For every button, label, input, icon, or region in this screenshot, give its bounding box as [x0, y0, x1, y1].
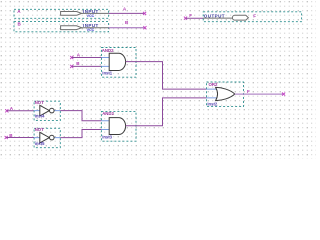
- NOT gate inst4 input x mark: [5, 109, 8, 112]
- svg-text:AND2: AND2: [102, 111, 114, 116]
- wire net F from OR2 inst2 output: [235, 93, 284, 95]
- wire net B (top): [109, 27, 145, 29]
- svg-text:F: F: [253, 14, 256, 19]
- svg-text:AND2: AND2: [102, 48, 114, 53]
- wire net A into AND2 inst1: [72, 57, 102, 59]
- NOT gate inst5 input x mark: [5, 136, 8, 139]
- svg-text:OR2: OR2: [209, 82, 218, 87]
- input pin B selection box: [14, 22, 109, 32]
- input pin A symbol body: [61, 9, 109, 18]
- dangling-end x mark (wire B into AND2 inst1): [70, 65, 73, 68]
- wire from AND2 inst1 output to OR2 inst2 input 1: [126, 62, 207, 90]
- wire net A into NOT inst4: [7, 110, 34, 112]
- wire net B into NOT inst5: [6, 137, 34, 139]
- NOT gate inst5 selection box: [34, 128, 60, 147]
- AND2 inst1 input stub pins: [102, 58, 110, 67]
- wire net F (to output pin): [186, 17, 204, 19]
- output pin F symbol body: [203, 14, 248, 21]
- svg-text:inst4: inst4: [35, 114, 45, 119]
- svg-text:VCC: VCC: [87, 14, 95, 18]
- svg-text:inst3: inst3: [102, 135, 112, 140]
- and-gate inst3 body: [109, 118, 125, 135]
- output pin F selection box: [203, 12, 301, 22]
- svg-text:F: F: [247, 89, 250, 94]
- svg-text:inst2: inst2: [207, 102, 217, 107]
- svg-text:NOT: NOT: [35, 127, 44, 132]
- wire net B into AND2 inst1: [72, 65, 102, 67]
- grid background: [0, 0, 316, 159]
- and-gate U inst1 body: [109, 53, 125, 70]
- wire net A (top): [109, 12, 145, 14]
- svg-text:inst1: inst1: [102, 71, 112, 76]
- OR2 inst2 input stub pins: [207, 89, 218, 98]
- svg-text:NOT: NOT: [35, 100, 44, 105]
- wire from AND2 inst3 output to OR2 inst2 input 2: [126, 98, 207, 126]
- AND2 gate inst3 selection box: [101, 111, 136, 141]
- input pin B symbol body: [61, 23, 109, 32]
- AND2 inst3 input stub pins: [101, 121, 109, 130]
- wire from NOT inst5 output to AND2 inst3 input 2: [60, 130, 101, 138]
- or-gate inst2 body: [216, 87, 235, 100]
- dangling-end x mark (output wire F): [184, 17, 187, 20]
- dangling-end x mark (OR2 output wire F): [282, 93, 285, 96]
- not-gate inst4 body: [40, 105, 54, 116]
- svg-text:inst5: inst5: [35, 141, 45, 146]
- svg-text:OUTPUT: OUTPUT: [204, 14, 225, 19]
- input pin A selection box: [14, 9, 109, 18]
- NOT inst5 stub pins: [34, 137, 60, 139]
- wire from NOT inst4 output to AND2 inst3 input 1: [60, 111, 101, 121]
- OR2 gate inst2 selection box: [207, 82, 244, 107]
- NOT gate inst4 selection box: [34, 101, 60, 120]
- dangling-end x mark (wire A into AND2 inst1): [70, 56, 73, 59]
- svg-text:F: F: [189, 13, 192, 18]
- dangling-end x mark (top wire A): [143, 12, 146, 15]
- dangling-end x mark (top wire B): [143, 26, 146, 29]
- not-gate inst5 body: [40, 132, 54, 143]
- svg-text:VCC: VCC: [87, 28, 95, 32]
- AND2 gate inst1 selection box: [102, 48, 137, 78]
- NOT inst4 stub pins: [34, 110, 60, 112]
